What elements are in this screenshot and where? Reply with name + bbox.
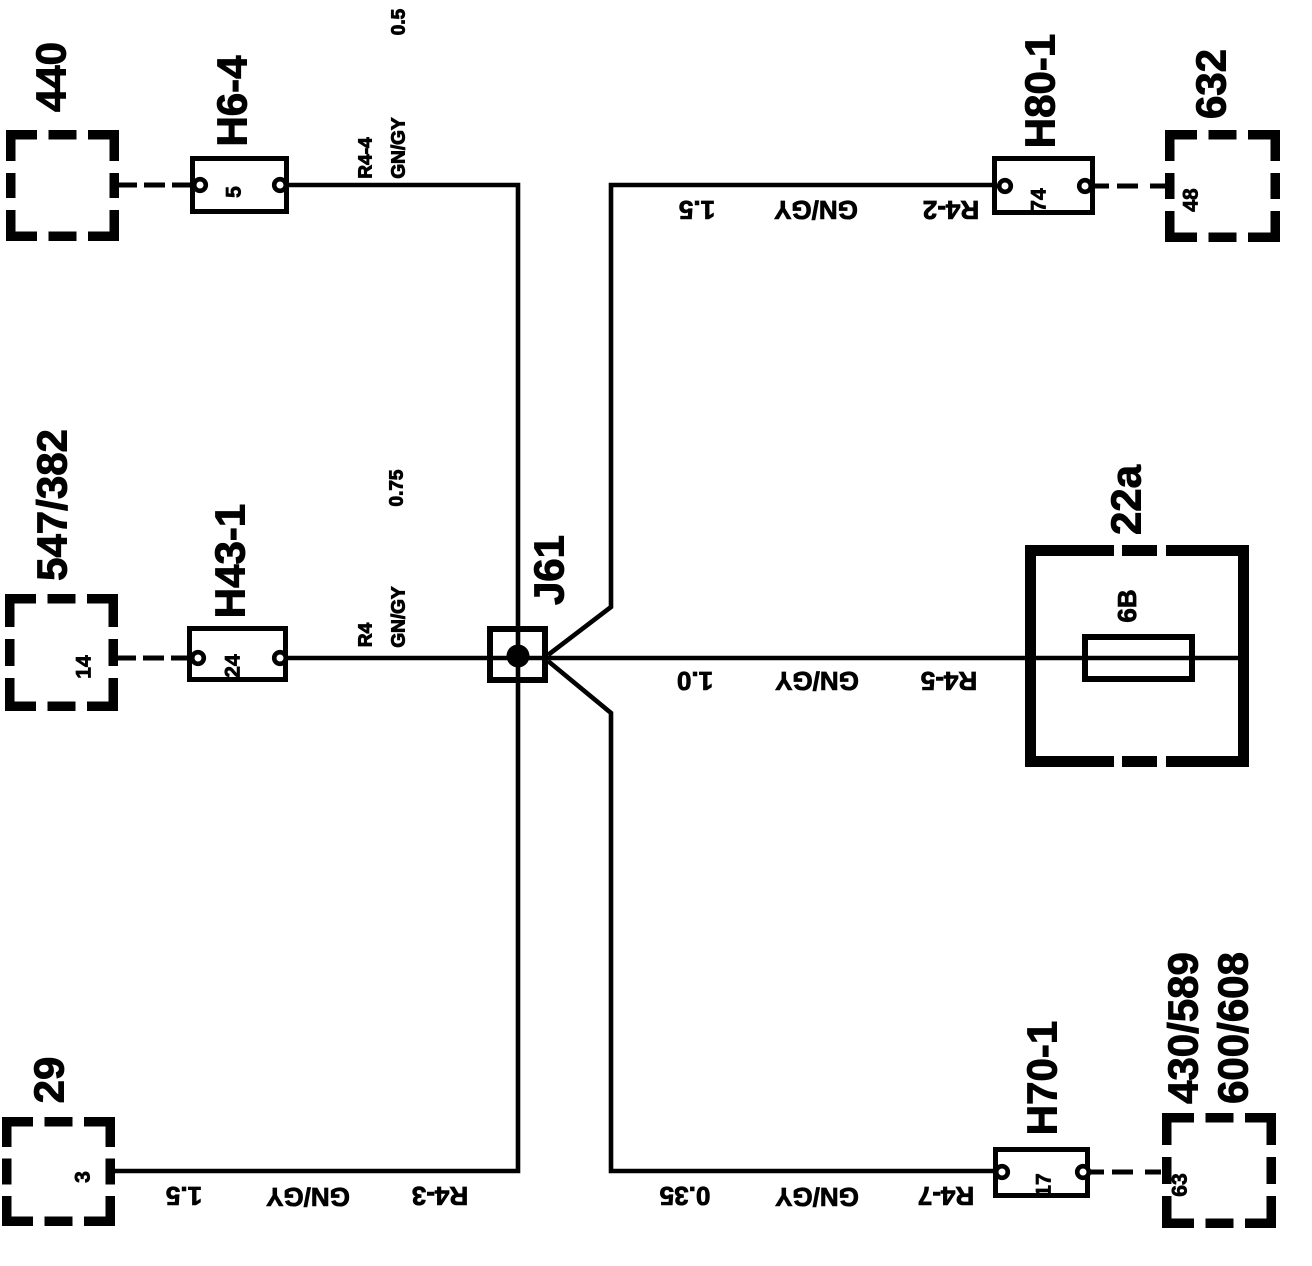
connector H43-1 <box>190 629 286 680</box>
wire: dashed link terminal 547/382 to H43-1 <box>118 656 189 661</box>
svg-text:0.35: 0.35 <box>660 1181 711 1211</box>
wire: dashed link terminal 440 to H6-4 <box>119 183 192 188</box>
svg-text:74: 74 <box>1028 188 1051 212</box>
connector H80-1 <box>995 159 1093 213</box>
wire: dashed link H80-1 to terminal 632 <box>1093 184 1170 189</box>
svg-text:547/382: 547/382 <box>29 429 76 581</box>
svg-text:632: 632 <box>1188 49 1235 119</box>
svg-text:440: 440 <box>28 42 75 112</box>
svg-text:24: 24 <box>222 654 245 678</box>
svg-text:1.0: 1.0 <box>677 666 713 696</box>
connector H6-4 <box>193 159 287 212</box>
svg-text:GN/GY: GN/GY <box>266 1182 350 1212</box>
wire: H43-1 pin to junction J61 <box>280 656 548 661</box>
svg-text:600/608: 600/608 <box>1210 952 1257 1104</box>
svg-text:R4-2: R4-2 <box>923 195 979 225</box>
svg-text:1.5: 1.5 <box>166 1181 202 1211</box>
svg-text:GN/GY: GN/GY <box>389 586 410 648</box>
wire: J61 diagonal down to vertical to H70-1 (R4-7 run) <box>548 661 995 1171</box>
terminal box 547/382 (dashed) <box>5 594 118 711</box>
fuse 6B <box>1085 637 1192 679</box>
wire: dashed link H70-1 to terminal 430/589 <box>1088 1170 1167 1175</box>
svg-text:R4-7: R4-7 <box>918 1181 974 1211</box>
svg-text:GN/GY: GN/GY <box>774 195 858 225</box>
svg-text:GN/GY: GN/GY <box>775 666 859 696</box>
terminal box 29 (dashed) <box>2 1117 115 1226</box>
terminal box 430/589 600/608 (dashed) <box>1162 1113 1276 1228</box>
svg-text:3: 3 <box>72 1171 95 1183</box>
junction J61 dot <box>507 645 530 668</box>
svg-text:0.5: 0.5 <box>389 8 410 35</box>
component box 22a (long-dash) <box>1025 545 1249 767</box>
svg-text:H80-1: H80-1 <box>1017 34 1064 148</box>
svg-text:H43-1: H43-1 <box>207 504 254 618</box>
svg-text:H70-1: H70-1 <box>1019 1021 1066 1135</box>
wire: H80-1 pin left to vertical, diagonal into J61 (R4-2 run) <box>548 185 992 655</box>
svg-text:430/589: 430/589 <box>1160 952 1207 1104</box>
svg-text:GN/GY: GN/GY <box>389 117 410 179</box>
svg-text:5: 5 <box>223 186 246 198</box>
svg-text:R4-3: R4-3 <box>412 1181 468 1211</box>
svg-text:48: 48 <box>1180 188 1203 212</box>
terminal box 632 (dashed) <box>1165 130 1280 242</box>
svg-text:29: 29 <box>26 1057 73 1104</box>
svg-text:6B: 6B <box>1112 589 1142 622</box>
svg-text:17: 17 <box>1033 1173 1056 1196</box>
junction J61 box <box>490 629 545 680</box>
svg-text:63: 63 <box>1169 1173 1192 1196</box>
svg-text:14: 14 <box>73 655 96 679</box>
svg-text:GN/GY: GN/GY <box>775 1182 859 1212</box>
connector H70-1 <box>996 1150 1088 1196</box>
wire: H6-4 pin to vertical trunk to terminal 29 (R4-4/R4-3 run) <box>115 185 518 1171</box>
svg-text:R4: R4 <box>356 622 377 647</box>
wire: junction J61 to fuse 6B in 22a <box>548 656 1238 661</box>
terminal box 440 (dashed) <box>6 130 119 241</box>
svg-text:1.5: 1.5 <box>679 195 715 225</box>
svg-text:0.75: 0.75 <box>387 469 408 506</box>
svg-text:J61: J61 <box>526 535 573 605</box>
svg-text:R4-4: R4-4 <box>356 137 377 179</box>
svg-text:22a: 22a <box>1103 464 1150 535</box>
svg-text:R4-5: R4-5 <box>921 666 977 696</box>
svg-text:H6-4: H6-4 <box>209 55 256 147</box>
